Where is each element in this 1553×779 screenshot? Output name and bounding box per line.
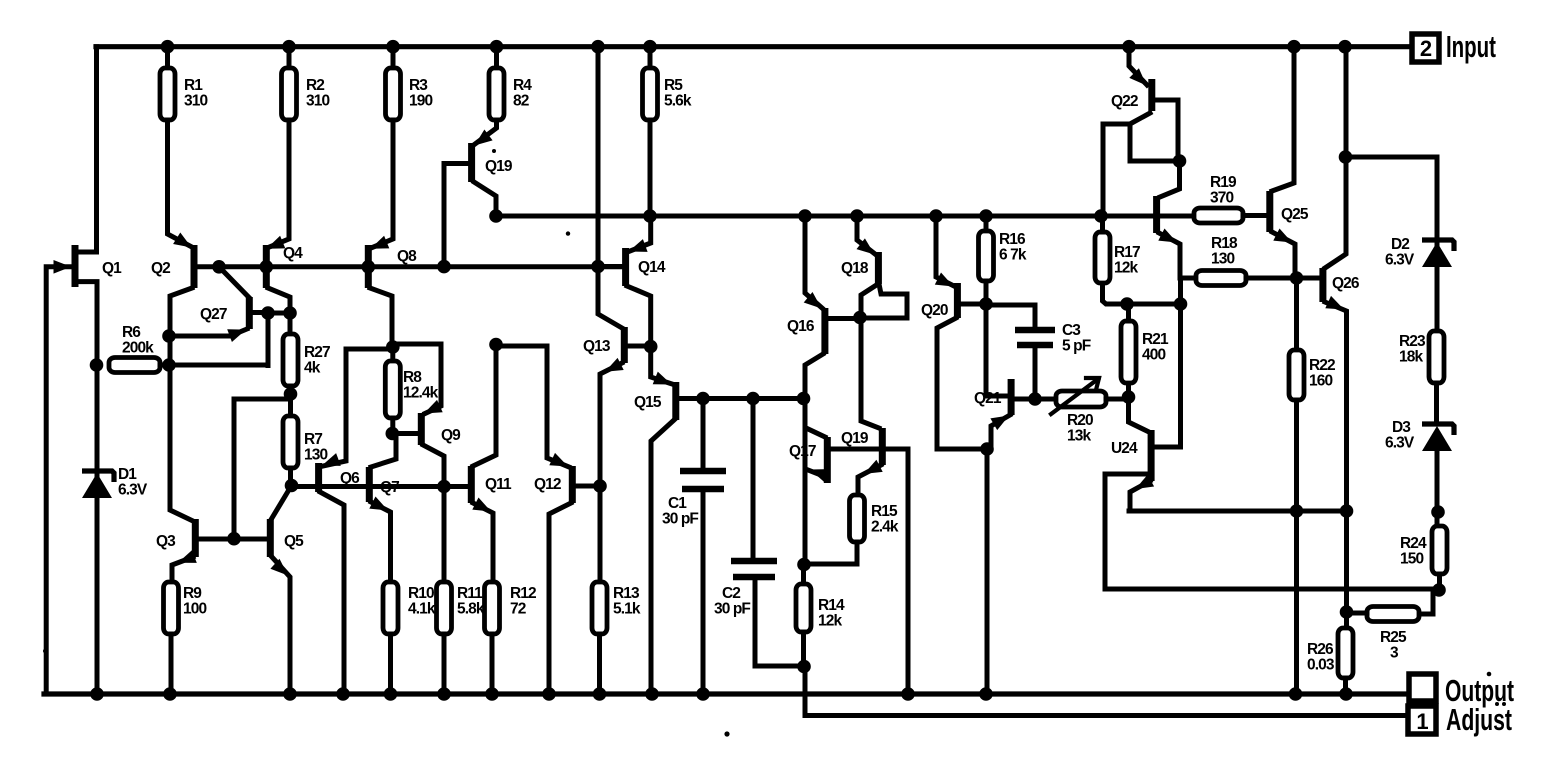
wire R21 top lead bbox=[1126, 304, 1131, 321]
wire R22 bottom bbox=[1294, 400, 1299, 694]
node y216 Q19 collector bbox=[489, 209, 503, 223]
transistor Q15 base bar bbox=[672, 382, 679, 420]
node Q22 rail junction bbox=[1122, 40, 1136, 54]
node R1 top rail junction bbox=[161, 40, 175, 54]
wire Q21 emitter bbox=[991, 415, 1010, 449]
transistor Q23 arrow bbox=[1158, 229, 1177, 243]
wire Q27 collector from bus bbox=[219, 267, 249, 298]
node R14 top junction bbox=[797, 558, 811, 572]
svg-text:Q9: Q9 bbox=[441, 427, 461, 444]
wire C1 top lead bbox=[701, 399, 706, 469]
wire R4 top lead bbox=[494, 47, 499, 68]
wire Q17 collector bbox=[806, 428, 825, 437]
resistor R20 13k (trimmer) bbox=[1056, 391, 1106, 407]
wire R21 bottom to Q24 bbox=[1129, 383, 1148, 431]
wire Q21 collector to R20 bbox=[1014, 397, 1056, 402]
transistor Q24 base bar bbox=[1148, 430, 1155, 481]
pin box Output bbox=[1409, 674, 1436, 701]
transistor Q1 base bar bbox=[72, 245, 79, 287]
wire x598 bus to Q13 collector bbox=[598, 267, 622, 329]
wire R24 bottom bbox=[1437, 574, 1442, 590]
node y216 R16 bbox=[979, 209, 993, 223]
transistor Q16 base bar bbox=[821, 308, 828, 354]
wire R8 bottom bbox=[390, 418, 395, 434]
wire SOA line y589 bbox=[1105, 587, 1439, 592]
wire Q24 collector right bbox=[1154, 445, 1181, 450]
wire R18 right lead bbox=[1246, 276, 1319, 281]
resistor R1 bbox=[160, 68, 175, 120]
wire R14 top lead bbox=[801, 565, 806, 585]
wire R7 bottom bbox=[288, 468, 293, 486]
transistor Q19 base bar bbox=[468, 143, 475, 182]
speck bbox=[1495, 702, 1499, 706]
wire Q17-Q19 base line bbox=[830, 447, 879, 452]
speck bbox=[1487, 672, 1492, 677]
transistor Q18 base bar bbox=[875, 252, 882, 284]
node Q11 collector / Q12 emitter branch bbox=[489, 338, 503, 352]
node Q12 base junction bbox=[593, 479, 607, 493]
node Q26 rail junction bbox=[1338, 40, 1352, 54]
node C-node junction bbox=[797, 392, 811, 406]
pin box Adjust (1) bbox=[1408, 706, 1436, 734]
zener diode D2 6.3V bbox=[1422, 240, 1454, 251]
wire Q26 collector bbox=[1325, 47, 1346, 268]
wire C2 bottom lead bbox=[755, 577, 805, 666]
svg-text:1: 1 bbox=[1416, 709, 1428, 734]
svg-text:R260.03: R260.03 bbox=[1307, 641, 1335, 674]
wire mirror bus y216 bbox=[496, 214, 1101, 219]
wire Q22 base bbox=[1103, 113, 1150, 216]
wire Q12 collector bbox=[549, 503, 571, 694]
wire bottom rail (Output net) bbox=[44, 691, 1409, 696]
wire R20 trim arrowhead bbox=[1086, 378, 1099, 390]
wire Q16 collector / x805 column bbox=[805, 354, 823, 565]
svg-text:R104.1k: R104.1k bbox=[408, 585, 436, 618]
svg-text:Q2: Q2 bbox=[151, 260, 170, 277]
wire C2 top lead bbox=[751, 399, 756, 558]
transistor Q5 arrow bbox=[270, 559, 288, 576]
transistor Q20 emitter arrow bbox=[935, 273, 954, 287]
resistor R11 5.8k bbox=[437, 582, 452, 634]
resistor R12 72 bbox=[485, 582, 500, 634]
wire R5 bottom bbox=[648, 120, 653, 216]
wire loop to Q9 emitter bbox=[393, 344, 441, 414]
resistor R27 4k bbox=[283, 334, 298, 386]
node Q4 emitter / R27 top bbox=[283, 306, 297, 320]
node C1 rail bbox=[696, 687, 710, 701]
wire R1 top lead bbox=[165, 47, 170, 68]
speck bbox=[1502, 702, 1506, 706]
wire C1 bottom lead bbox=[701, 489, 706, 694]
wire Q22 collector bbox=[1155, 100, 1178, 161]
transistor Q24 arrow bbox=[1136, 475, 1155, 489]
transistor Q2 collector arrow bbox=[173, 233, 191, 248]
transistor Q27 arrow bbox=[227, 329, 246, 342]
wire R6 right lead bbox=[160, 363, 268, 368]
wire node left branch to Q3-Q5 base bbox=[234, 399, 290, 539]
node Q5 emitter rail bbox=[283, 687, 297, 701]
wire Q4 emitter down bbox=[268, 288, 290, 313]
wire Q24 emitter bbox=[1130, 481, 1150, 511]
transistor Q1 arrow bbox=[54, 260, 72, 274]
node y216 Q16 bbox=[798, 209, 812, 223]
node y511 Q26 emitter junction bbox=[1340, 504, 1354, 518]
resistor R14 12k bbox=[796, 584, 811, 632]
wire R20 right lead bbox=[1106, 397, 1129, 402]
wire Q13 emitter bbox=[600, 363, 622, 582]
wire Q23 base line bbox=[1101, 214, 1194, 219]
node R12 rail bbox=[485, 687, 499, 701]
wire R9 bottom bbox=[169, 634, 174, 694]
svg-text:R152.4k: R152.4k bbox=[871, 503, 899, 536]
node base line junction bbox=[227, 532, 241, 546]
svg-text:Q20: Q20 bbox=[921, 302, 948, 319]
transistor Q19L arrow bbox=[864, 460, 883, 474]
transistor Q22 emitter arrow bbox=[1129, 68, 1146, 85]
resistor R22 160 bbox=[1289, 350, 1304, 400]
transistor Q9 emitter arrow bbox=[424, 400, 443, 414]
resistor R8 12.4k bbox=[385, 361, 400, 418]
node R5 top rail junction bbox=[643, 40, 657, 54]
transistor Q16 emitter arrow bbox=[804, 292, 822, 309]
transistor Q21 base bar bbox=[1008, 379, 1015, 415]
wire base bus bbox=[219, 264, 622, 269]
wire Q19 emitter to R15 bbox=[858, 465, 881, 495]
node C2 top bbox=[746, 392, 760, 406]
resistor R18 130 bbox=[1196, 271, 1246, 286]
node Q25 rail junction bbox=[1287, 40, 1301, 54]
wire branch to Q6 emitter bbox=[323, 349, 393, 466]
wire Q7 emitter bbox=[371, 502, 391, 582]
svg-text:Q1: Q1 bbox=[102, 260, 122, 277]
transistor Q14 base bar bbox=[622, 248, 629, 286]
svg-text:Q27: Q27 bbox=[200, 306, 227, 323]
transistor Q9 base bar bbox=[418, 413, 425, 445]
wire Q14 base bbox=[598, 264, 622, 269]
node R8 bottom / Q9 base / Q7 collector bbox=[386, 427, 400, 441]
wire Q20 base bbox=[960, 302, 986, 307]
wire R27 bottom bbox=[288, 386, 293, 396]
svg-text:Adjust: Adjust bbox=[1446, 702, 1512, 737]
svg-text:Q16: Q16 bbox=[787, 318, 815, 335]
resistor R24 150 bbox=[1432, 526, 1447, 574]
resistor R3 bbox=[386, 68, 401, 120]
node D2 chain tap bbox=[1339, 150, 1353, 164]
transistor Q21 emitter arrow bbox=[990, 416, 1009, 431]
svg-text:R24150: R24150 bbox=[1400, 535, 1427, 568]
zener diode D1 6.3V bbox=[82, 471, 114, 482]
transistor Q5 base bar bbox=[267, 519, 274, 557]
node x97 rail bbox=[90, 687, 104, 701]
wire Q6-Q7 base line bbox=[321, 484, 366, 489]
wire R13 bottom bbox=[597, 634, 602, 694]
wire Q7 collector to R8 node bbox=[371, 434, 396, 468]
wire Q27 base link bbox=[252, 310, 268, 315]
svg-text:Q12: Q12 bbox=[534, 476, 561, 493]
svg-text:Q18: Q18 bbox=[841, 260, 869, 277]
wire Q22 emitter bbox=[1129, 47, 1147, 85]
wire Q5 collector bbox=[272, 486, 292, 519]
svg-text:2: 2 bbox=[1420, 36, 1432, 61]
node Q2 emitter / Q27 emitter bbox=[162, 329, 176, 343]
wire D2 to R23 bbox=[1435, 268, 1440, 331]
node x908 rail bbox=[901, 687, 915, 701]
node x1181 / R17 junction bbox=[1174, 297, 1188, 311]
node R24 / R25 / y589 junction bbox=[1432, 583, 1446, 597]
svg-text:Input: Input bbox=[1446, 29, 1496, 64]
transistor Q19 emitter arrow bbox=[475, 130, 493, 146]
node bus-Q4 junction bbox=[260, 260, 274, 274]
speck bbox=[492, 149, 496, 153]
node R16 bottom / Q20 base / C3 / Q21 base bbox=[979, 297, 993, 311]
node R17 bottom / R21 top bbox=[1120, 297, 1134, 311]
wire R27 top lead bbox=[288, 313, 293, 334]
resistor R6 200k bbox=[109, 358, 160, 373]
transistor Q3 base bar bbox=[192, 519, 199, 557]
wire Q2 emitter down bbox=[170, 288, 192, 520]
transistor Q20 base bar bbox=[954, 283, 961, 318]
speck bbox=[43, 649, 47, 653]
node R6 left on x97 bbox=[90, 358, 104, 372]
wire Q20 emitter bbox=[936, 216, 954, 286]
node C1 top bbox=[696, 392, 710, 406]
node Q12 collector rail bbox=[542, 687, 556, 701]
node y216 R17/Q22 base bbox=[1094, 209, 1108, 223]
wire Q25 collector bbox=[1272, 47, 1294, 191]
speck bbox=[566, 231, 570, 235]
svg-text:Q4: Q4 bbox=[283, 245, 303, 262]
node R2 top rail junction bbox=[282, 40, 296, 54]
wire Q6 base line left bbox=[292, 484, 317, 489]
transistor Q8 collector arrow bbox=[371, 236, 390, 249]
wire C3 bottom lead bbox=[1033, 345, 1038, 399]
wire link between nodes bbox=[268, 311, 290, 316]
wire R20 trim arrow bbox=[1051, 379, 1098, 414]
wire R3 top lead bbox=[391, 47, 396, 68]
node Q14 collector / Q13 base / Q15 emitter bbox=[644, 340, 658, 354]
wire Q25 emitter bbox=[1272, 232, 1295, 278]
wire R19 right lead bbox=[1243, 213, 1266, 218]
svg-text:R1412k: R1412k bbox=[818, 597, 845, 630]
resistor R16 6.7k bbox=[979, 231, 994, 281]
node Q27 base / Q4 emitter link left bbox=[261, 306, 275, 320]
capacitor C1 30pF bbox=[680, 471, 726, 489]
wire Q19 collector bbox=[474, 182, 496, 216]
node y216 Q18 bbox=[850, 209, 864, 223]
wire R5 top lead bbox=[648, 47, 653, 68]
wire Q24 base bbox=[1105, 474, 1148, 589]
node R14/C2/adjust junction bbox=[797, 660, 811, 674]
transistor Q26 base bar bbox=[1319, 268, 1326, 302]
node Q25 emitter / R18 / R22 / Q26 base bbox=[1290, 271, 1304, 285]
wire R4 bottom to Q19 emitter bbox=[475, 120, 497, 144]
wire Q21 base column bbox=[986, 304, 1008, 396]
wire Q18 base loop bbox=[862, 284, 907, 318]
node R11 rail bbox=[437, 687, 451, 701]
svg-text:R21400: R21400 bbox=[1142, 331, 1169, 364]
wire Q23 emitter down to Q24 collector bbox=[1158, 278, 1181, 447]
svg-text:R166 7k: R166 7k bbox=[999, 231, 1027, 264]
wire Q3 emitter bbox=[172, 557, 193, 582]
wire mirror node down to Q19 collector bbox=[861, 318, 879, 428]
node Q26 emitter / R25 / R26 junction bbox=[1340, 605, 1354, 619]
wire Q15 base to C1/C2 line bbox=[679, 396, 803, 401]
wire Q5 emitter bbox=[272, 557, 290, 694]
transistor Q2 base bar bbox=[191, 245, 198, 288]
svg-text:R135.1k: R135.1k bbox=[613, 585, 641, 618]
speck bbox=[724, 731, 729, 736]
node Q15 collector rail bbox=[645, 687, 659, 701]
resistor R23 18k bbox=[1429, 331, 1444, 383]
wire R22 top lead bbox=[1294, 278, 1299, 350]
wire Q19 base bbox=[444, 164, 468, 267]
wire Q15 emitter bbox=[651, 347, 672, 385]
transistor Q11 base bar bbox=[468, 466, 475, 503]
node y511 R22 crossing junction bbox=[1290, 504, 1304, 518]
wire R25 right elbow bbox=[1419, 590, 1433, 614]
transistor Q3 arrow bbox=[178, 550, 197, 563]
wire Q7 base right bbox=[372, 484, 444, 489]
wire R16 bottom bbox=[984, 281, 989, 304]
svg-text:Q25: Q25 bbox=[1281, 206, 1309, 223]
transistor Q25 base bar bbox=[1266, 191, 1273, 232]
transistor Q12 base bar bbox=[569, 466, 576, 503]
wire Q12 base bbox=[575, 484, 598, 489]
node bus-Q19 base junction bbox=[437, 260, 451, 274]
svg-text:R2013k: R2013k bbox=[1067, 412, 1093, 445]
node y216 Q20 bbox=[929, 209, 943, 223]
svg-text:Q5: Q5 bbox=[284, 533, 304, 550]
wire R23 to D3 bbox=[1434, 383, 1439, 422]
transistor Q4 base bar bbox=[263, 245, 270, 288]
wire Q23 emitter bbox=[1159, 233, 1196, 278]
node R10 rail bbox=[384, 687, 398, 701]
wire R11 bottom bbox=[442, 634, 447, 694]
wire Q1 base to far-left vertical bbox=[46, 267, 72, 694]
wire Q11 base lead bbox=[444, 484, 468, 489]
resistor R9 100 bbox=[164, 582, 179, 634]
pin box Input (2) bbox=[1412, 34, 1439, 62]
wire R10 bottom bbox=[388, 634, 393, 694]
node bus-Q27 junction bbox=[212, 260, 226, 274]
resistor R15 2.4k bbox=[850, 495, 865, 542]
wire Q11 emitter bbox=[473, 503, 493, 582]
zener diode D3 6.3V bbox=[1422, 424, 1454, 435]
wire Q16 base bbox=[827, 316, 857, 321]
svg-text:R19370: R19370 bbox=[1210, 174, 1237, 207]
transistor Q26 arrow bbox=[1325, 296, 1344, 310]
capacitor C3 5pF bbox=[1015, 330, 1055, 345]
node Q8 emitter / R8 top bbox=[386, 340, 400, 354]
transistor Q25 arrow bbox=[1273, 229, 1292, 243]
node R9 rail bbox=[163, 687, 177, 701]
resistor R4 82 bbox=[489, 68, 504, 120]
node bus-Q8 junction bbox=[362, 260, 376, 274]
wire Q3-Q5 base line bbox=[198, 537, 267, 542]
node y216 R5/Q14 bbox=[643, 209, 657, 223]
wire Q16 emitter bbox=[805, 216, 822, 308]
wire Q2 base to bus bbox=[197, 264, 219, 269]
wire Q1 collector to top rail bbox=[77, 47, 97, 252]
resistor R10 4.1k bbox=[383, 582, 398, 634]
svg-text:U24: U24 bbox=[1111, 440, 1138, 457]
node R6 line x169 junction bbox=[162, 358, 176, 372]
wire Q11 collector bbox=[473, 345, 496, 466]
wire x598 rail to bus bbox=[596, 47, 601, 267]
resistor R17 12k bbox=[1095, 232, 1110, 283]
node x987 rail bbox=[979, 687, 993, 701]
transistor Q6 emitter arrow bbox=[322, 453, 341, 466]
node R4 top rail junction bbox=[490, 40, 504, 54]
wire Q26 emitter bbox=[1325, 302, 1347, 628]
node R27 bottom / R7 top bbox=[284, 387, 298, 401]
resistor R2 bbox=[282, 68, 297, 120]
wire Q14 emitter bbox=[630, 216, 651, 251]
resistor R26 0.03 bbox=[1338, 628, 1353, 678]
transistor Q15 emitter arrow bbox=[653, 372, 672, 385]
wire Q24 emitter line y511 bbox=[1129, 509, 1347, 514]
wire Q19 base right to rail bbox=[885, 449, 908, 694]
wire D3 to R24 bbox=[1435, 452, 1440, 526]
wire adjust drop bbox=[803, 667, 808, 716]
svg-text:R115.8k: R115.8k bbox=[457, 585, 485, 618]
wire top rail (Input net) bbox=[96, 44, 1412, 49]
svg-text:Q14: Q14 bbox=[638, 259, 666, 276]
svg-text:Q15: Q15 bbox=[634, 394, 662, 411]
wire Q14 collector bbox=[627, 286, 651, 347]
transistor Q7 base bar bbox=[366, 467, 373, 502]
wire Q18 emitter bbox=[857, 216, 875, 254]
wire R2 bottom to Q4 collector bbox=[267, 120, 289, 248]
wire R25 left lead bbox=[1347, 611, 1368, 616]
svg-text:Q19: Q19 bbox=[841, 430, 869, 447]
wire Q18 collector bbox=[861, 284, 878, 318]
node Q20 collector / Q21 emitter bbox=[980, 442, 994, 456]
wire R8 top lead bbox=[390, 347, 395, 361]
transistor Q4 collector arrow bbox=[267, 236, 286, 249]
transistor Q12 emitter arrow bbox=[549, 453, 568, 467]
wire C3 top branch bbox=[986, 305, 1035, 327]
wire Q9 base lead bbox=[392, 431, 418, 436]
resistor R19 370 bbox=[1194, 208, 1243, 223]
wire R12 bottom bbox=[490, 634, 495, 694]
wire R3 bottom to Q8 collector bbox=[371, 120, 393, 248]
svg-text:Q13: Q13 bbox=[583, 338, 611, 355]
resistor R5 5.6k bbox=[643, 68, 658, 120]
node R22 rail bbox=[1289, 687, 1303, 701]
wire R2 top lead bbox=[287, 47, 292, 68]
node Q6 collector rail bbox=[336, 687, 350, 701]
transistor Q23 base bar bbox=[1153, 196, 1160, 233]
resistor R13 5.1k bbox=[592, 582, 607, 634]
capacitor C2 30pF bbox=[731, 561, 777, 577]
wire R1 bottom to Q2 collector bbox=[168, 120, 191, 246]
transistor Q17 arrow bbox=[810, 469, 829, 482]
node R3 top rail junction bbox=[386, 40, 400, 54]
wire Q15 collector bbox=[651, 420, 674, 694]
wire Q27 emitter bbox=[169, 329, 247, 336]
transistor Q8 base bar bbox=[365, 245, 372, 288]
wire node down to rail bbox=[985, 449, 990, 694]
transistor Q17 base bar bbox=[824, 437, 831, 483]
transistor Q11 arrow bbox=[472, 498, 491, 512]
wire Q6 collector bbox=[320, 492, 344, 694]
transistor Q7 arrow bbox=[369, 497, 388, 511]
svg-text:Q22: Q22 bbox=[1111, 93, 1138, 110]
node Q9 collector / Q7-Q11 base bbox=[437, 480, 451, 494]
transistor Q14 emitter arrow bbox=[629, 239, 648, 252]
wire Adjust line bbox=[805, 713, 1408, 718]
